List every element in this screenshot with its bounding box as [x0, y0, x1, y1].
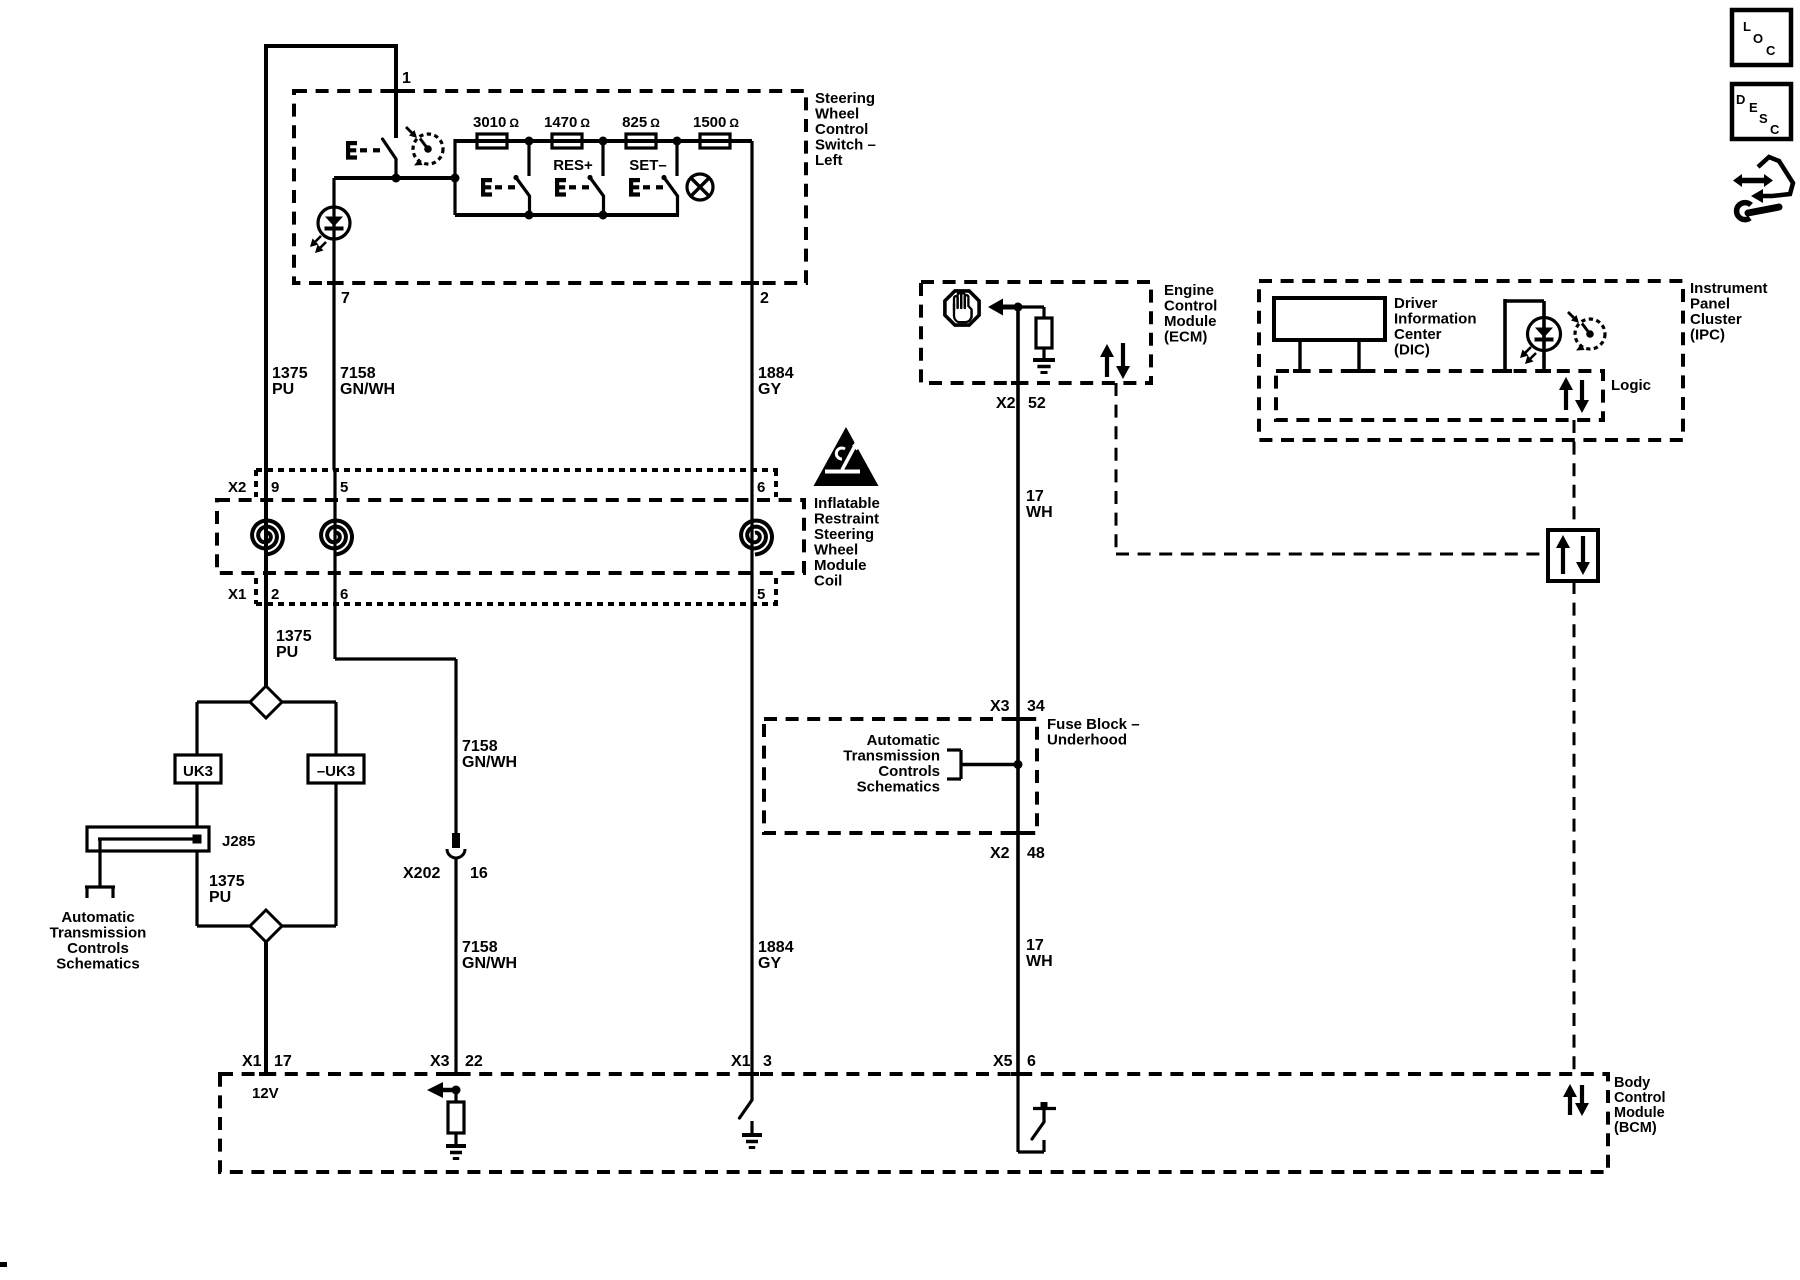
svg-text:C: C	[1766, 43, 1776, 58]
ground BCM resistor	[446, 1144, 466, 1148]
svg-text:UK3: UK3	[183, 763, 213, 780]
svg-text:1470 Ω: 1470 Ω	[544, 114, 590, 131]
svg-text:Transmission: Transmission	[50, 925, 147, 942]
ladder top rail	[455, 139, 752, 143]
connector X2 strip line	[256, 468, 778, 472]
wire UK3 to J285	[195, 783, 198, 827]
module box: Fuse Block - Underhood	[764, 719, 1037, 833]
wire branch left bottom	[197, 924, 250, 927]
svg-text:GY: GY	[758, 955, 781, 972]
DIC leg left	[1298, 340, 1301, 371]
svg-text:Left: Left	[815, 152, 843, 169]
svg-text:3: 3	[763, 1053, 772, 1070]
svg-text:Underhood: Underhood	[1047, 732, 1127, 749]
svg-text:Steering: Steering	[814, 526, 874, 543]
svg-text:1375: 1375	[276, 628, 312, 645]
junction ladder left	[451, 174, 460, 183]
BCM internal switch X5-6	[1016, 1074, 1019, 1152]
ground BCM switch	[742, 1133, 762, 1137]
junction BCM X3-22	[452, 1086, 461, 1095]
svg-text:Driver: Driver	[1394, 295, 1438, 312]
tick logic crossing DIC legs	[1293, 369, 1307, 373]
wire S1 to ladder	[334, 176, 455, 180]
wire W2 through coil	[333, 470, 336, 604]
svg-text:GY: GY	[758, 381, 781, 398]
svg-text:WH: WH	[1026, 504, 1053, 521]
label E-- S3	[555, 178, 566, 197]
svg-text:Module: Module	[1614, 1105, 1665, 1121]
svg-text:PU: PU	[209, 889, 231, 906]
wire J285 down	[195, 851, 198, 926]
svg-text:52: 52	[1028, 395, 1046, 412]
wire bus drop	[98, 839, 101, 886]
junctions top rail	[525, 137, 534, 146]
tick X2-52 crossing	[1011, 381, 1025, 385]
ECM internal resistor	[1018, 305, 1044, 308]
module box: Engine Control Module ECM	[921, 282, 1151, 383]
serial data arrows gateway	[1561, 546, 1565, 574]
stop lamp octagon with hand	[945, 291, 979, 325]
module box: Inflatable Restraint Steering Wheel Module Coil	[217, 500, 804, 573]
svg-text:Restraint: Restraint	[814, 511, 879, 528]
wire W3 through coil	[750, 470, 753, 604]
svg-text:X3: X3	[990, 698, 1010, 715]
serial data arrows ECM	[1105, 355, 1109, 377]
label E-- S4	[629, 178, 640, 197]
svg-text:Schematics: Schematics	[56, 956, 139, 973]
tick X3-34 crossing	[1011, 717, 1025, 721]
switch S4 SET- stub	[675, 141, 678, 176]
svg-text:Wheel: Wheel	[815, 106, 859, 123]
svg-text:16: 16	[470, 865, 488, 882]
svg-text:7158: 7158	[462, 738, 498, 755]
serial data arrows logic	[1564, 388, 1568, 410]
DIC leg right	[1357, 340, 1360, 371]
svg-text:S: S	[1759, 111, 1768, 126]
svg-text:GN/WH: GN/WH	[462, 955, 517, 972]
svg-text:RES+: RES+	[553, 157, 593, 174]
svg-text:Cluster: Cluster	[1690, 311, 1742, 328]
svg-text:5: 5	[757, 586, 765, 603]
svg-text:1375: 1375	[272, 365, 308, 382]
svg-text:Transmission: Transmission	[843, 748, 940, 765]
bracket to ATC	[947, 748, 961, 751]
wire W1 to BCM	[264, 942, 268, 1074]
serial data arrows BCM	[1568, 1095, 1572, 1115]
svg-text:WH: WH	[1026, 953, 1053, 970]
svg-text:Automatic: Automatic	[867, 732, 940, 749]
ladder bottom rail	[455, 213, 679, 217]
svg-text:X2: X2	[990, 845, 1010, 862]
svg-text:Module: Module	[1164, 313, 1217, 330]
cruise control icon	[413, 134, 443, 164]
DESC reference box	[1732, 84, 1791, 139]
diamond splice top	[250, 686, 282, 718]
tick X1-17 crossing	[259, 1072, 273, 1076]
LOC reference box	[1732, 10, 1791, 65]
svg-text:6: 6	[1027, 1053, 1036, 1070]
svg-text:Automatic: Automatic	[61, 909, 134, 926]
svg-text:Engine: Engine	[1164, 282, 1214, 299]
serial gateway box	[1548, 530, 1598, 581]
coil L2	[321, 521, 352, 555]
svg-text:2: 2	[271, 586, 279, 603]
resistor 1500 ohm	[700, 134, 730, 148]
DIC display	[1274, 298, 1385, 340]
junction ECM	[1014, 303, 1023, 312]
connector X1 strip line	[256, 602, 778, 606]
svg-text:O: O	[1753, 31, 1763, 46]
wire W1 to diamond	[264, 604, 268, 687]
BCM switch to ground	[750, 1074, 753, 1100]
module box: Instrument Panel Cluster IPC	[1259, 281, 1683, 440]
BCM pull resistor	[454, 1090, 457, 1102]
coil L1	[252, 521, 283, 555]
LED indicator	[318, 207, 350, 239]
svg-text:Switch –: Switch –	[815, 137, 876, 154]
svg-text:17: 17	[1026, 488, 1044, 505]
svg-text:48: 48	[1027, 845, 1045, 862]
wire X202 to BCM	[454, 858, 457, 1074]
svg-text:D: D	[1736, 92, 1745, 107]
svg-text:(BCM): (BCM)	[1614, 1120, 1657, 1136]
wire W1 through coil	[264, 472, 268, 604]
svg-text:Wheel: Wheel	[814, 542, 858, 559]
tick X3-22 crossing	[449, 1072, 463, 1076]
svg-text:7158: 7158	[340, 365, 376, 382]
module box: Body Control Module BCM	[220, 1074, 1608, 1172]
svg-text:C: C	[1770, 122, 1780, 137]
svg-text:Controls: Controls	[878, 763, 940, 780]
svg-text:X2: X2	[228, 479, 246, 496]
svg-text:X202: X202	[403, 865, 440, 882]
IPC LED wiring	[1503, 299, 1507, 371]
wire -UK3 down	[334, 783, 337, 926]
wire W2 X1-6 to X202	[333, 604, 336, 659]
svg-text:X1: X1	[228, 586, 246, 603]
switch S2 branch stub	[527, 141, 530, 176]
svg-text:9: 9	[271, 479, 279, 496]
switch S3 blade	[590, 178, 604, 197]
fuse UK3	[175, 755, 221, 783]
svg-text:J285: J285	[222, 833, 255, 850]
svg-text:–UK3: –UK3	[317, 763, 355, 780]
svg-text:7: 7	[341, 290, 350, 307]
bus bar J285	[87, 827, 209, 851]
svg-text:1884: 1884	[758, 939, 794, 956]
ladder left vertical	[453, 139, 456, 215]
coil L3	[741, 521, 772, 555]
wire to switch pin 1	[394, 46, 398, 138]
svg-text:Panel: Panel	[1690, 296, 1730, 313]
svg-text:PU: PU	[276, 644, 298, 661]
serial data wire logic down	[1573, 420, 1576, 530]
tick X1-3 crossing	[745, 1072, 759, 1076]
svg-text:34: 34	[1027, 698, 1045, 715]
svg-text:825 Ω: 825 Ω	[622, 114, 660, 131]
svg-text:1884: 1884	[758, 365, 794, 382]
svg-text:L: L	[1743, 19, 1751, 34]
wire W1 vertical 1375 PU	[264, 46, 268, 472]
wire branch right top	[282, 700, 336, 703]
svg-text:Center: Center	[1394, 326, 1442, 343]
diamond splice bottom	[250, 910, 282, 942]
svg-text:Information: Information	[1394, 311, 1477, 328]
label E-- S2	[481, 178, 492, 197]
svg-text:Control: Control	[815, 121, 868, 138]
svg-text:17: 17	[1026, 937, 1044, 954]
wire branch left top	[197, 700, 250, 703]
wire battery feed top	[264, 44, 398, 48]
svg-text:X3: X3	[430, 1053, 450, 1070]
label E-- S1	[346, 141, 357, 160]
svg-text:E: E	[1749, 100, 1758, 115]
svg-text:6: 6	[757, 479, 765, 496]
serial data wire gateway to BCM	[1573, 581, 1576, 1074]
fuse -UK3	[308, 755, 364, 783]
svg-text:7158: 7158	[462, 939, 498, 956]
svg-text:(ECM): (ECM)	[1164, 329, 1207, 346]
svg-text:(IPC): (IPC)	[1690, 327, 1725, 344]
svg-text:1: 1	[402, 70, 411, 87]
svg-text:2: 2	[760, 290, 769, 307]
inline connector X202 pin 16	[452, 833, 460, 848]
wire LED drop	[332, 178, 335, 470]
IPC gauge icon	[1575, 319, 1605, 349]
switch S2 blade	[516, 178, 530, 197]
airbag warning triangle	[814, 427, 879, 486]
svg-text:1375: 1375	[209, 873, 245, 890]
svg-text:1500 Ω: 1500 Ω	[693, 114, 739, 131]
svg-text:12V: 12V	[252, 1085, 279, 1102]
junctions bottom rail	[525, 211, 534, 220]
svg-text:SET–: SET–	[629, 157, 667, 174]
switch S4 blade	[664, 178, 678, 197]
svg-text:(DIC): (DIC)	[1394, 342, 1430, 359]
stray mark bottom left	[0, 1262, 7, 1267]
IPC LED	[1528, 318, 1561, 351]
tick pin7 box crossing	[327, 281, 341, 285]
resistor 1470 ohm	[552, 134, 582, 148]
switch S3 RES+ stub	[601, 141, 604, 176]
wire 17 WH from ECM	[1016, 307, 1020, 1074]
svg-text:Fuse Block –: Fuse Block –	[1047, 716, 1140, 733]
svg-text:Inflatable: Inflatable	[814, 495, 880, 512]
svg-text:X5: X5	[993, 1053, 1013, 1070]
svg-text:PU: PU	[272, 381, 294, 398]
svg-text:Control: Control	[1614, 1090, 1666, 1106]
svg-text:Logic: Logic	[1611, 377, 1651, 394]
svg-text:Schematics: Schematics	[857, 779, 940, 796]
svg-text:5: 5	[340, 479, 348, 496]
tick X5-6 crossing	[1011, 1072, 1025, 1076]
svg-text:6: 6	[340, 586, 348, 603]
wire W3 to BCM	[750, 604, 753, 1074]
svg-text:22: 22	[465, 1053, 483, 1070]
svg-text:Instrument: Instrument	[1690, 280, 1768, 297]
svg-text:Controls: Controls	[67, 940, 129, 957]
tick pin1 box crossing	[389, 89, 403, 93]
svg-text:17: 17	[274, 1053, 292, 1070]
serial data wire ECM to gateway	[1115, 383, 1118, 554]
svg-text:X2: X2	[996, 395, 1016, 412]
junction fuse block	[1014, 760, 1023, 769]
svg-text:Coil: Coil	[814, 573, 842, 590]
resistor 825 ohm	[626, 134, 656, 148]
wire pin 2 vertical 1884 GY upper	[750, 141, 753, 472]
svg-text:Module: Module	[814, 557, 867, 574]
illumination lamp	[687, 174, 713, 200]
svg-text:X1: X1	[731, 1053, 751, 1070]
ground ECM internal	[1033, 358, 1055, 362]
arrow from ECM	[1002, 305, 1018, 310]
module box: Steering Wheel Control Switch - Left	[294, 91, 806, 283]
navigation arrows and wrench icon	[1733, 174, 1773, 187]
junction S1	[392, 174, 401, 183]
BCM arrow out	[442, 1088, 456, 1093]
svg-text:Body: Body	[1614, 1075, 1650, 1091]
svg-text:Steering: Steering	[815, 90, 875, 107]
off-page connector comb	[85, 885, 115, 888]
svg-text:Control: Control	[1164, 298, 1217, 315]
wire branch right bottom	[282, 924, 336, 927]
tick X2-48 crossing	[1011, 831, 1025, 835]
svg-text:GN/WH: GN/WH	[462, 754, 517, 771]
switch S1 cruise on/off	[383, 139, 397, 159]
resistor 3010 ohm	[477, 134, 507, 148]
wire bracket to main	[961, 763, 1018, 766]
svg-text:3010 Ω: 3010 Ω	[473, 114, 519, 131]
svg-text:X1: X1	[242, 1053, 262, 1070]
logic box	[1276, 371, 1603, 420]
tick pin2 box crossing	[745, 281, 759, 285]
svg-text:GN/WH: GN/WH	[340, 381, 395, 398]
